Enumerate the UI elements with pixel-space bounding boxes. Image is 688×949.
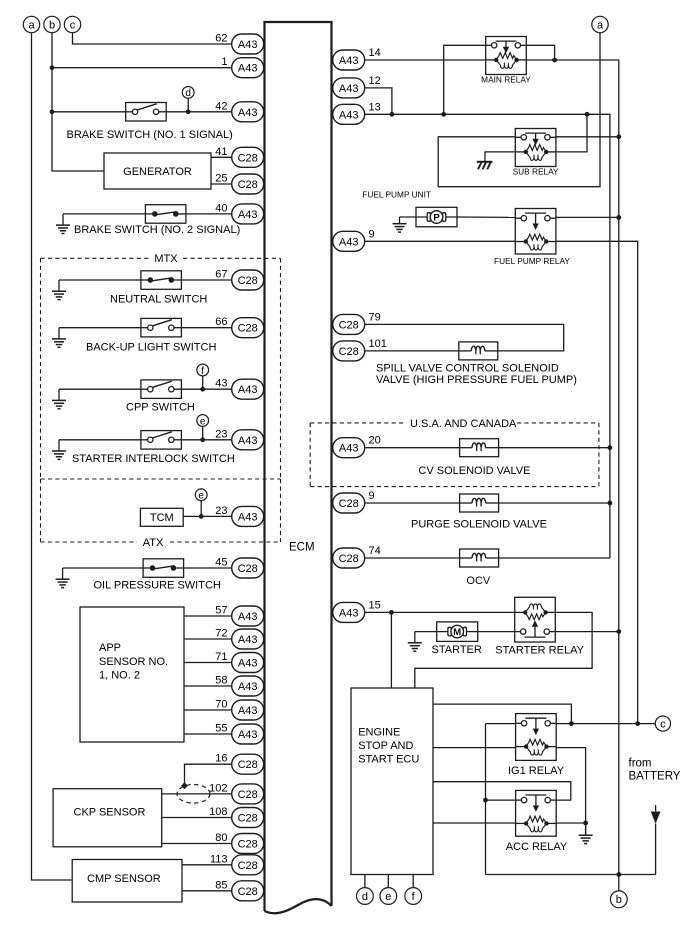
chassis ground sub relay <box>477 162 493 170</box>
USA/Canada box top dashed right part <box>517 422 599 424</box>
node f (bottom) <box>405 888 422 905</box>
connector C28 pin 25 <box>215 173 263 195</box>
node c (right) <box>655 716 670 731</box>
svg-text:C28: C28 <box>238 563 258 575</box>
svg-text:A43: A43 <box>238 611 258 623</box>
junction fuel pump coil rail on node c wire <box>635 721 640 726</box>
svg-text:67: 67 <box>215 269 227 281</box>
CKP sensor box <box>53 789 162 847</box>
switch STARTER INTERLOCK SWITCH <box>141 431 182 450</box>
connector C28 pin 102 <box>209 782 264 804</box>
svg-text:66: 66 <box>215 316 227 328</box>
switch BACK-UP LIGHT SWITCH <box>141 318 182 337</box>
svg-text:from: from <box>629 757 652 769</box>
connector A43 pin 23 (TCM) <box>215 505 263 527</box>
svg-text:72: 72 <box>215 628 227 640</box>
svg-text:C28: C28 <box>339 498 359 510</box>
wire APP sensor to pin 70 <box>184 709 232 711</box>
svg-text:BACK-UP LIGHT SWITCH: BACK-UP LIGHT SWITCH <box>86 341 216 353</box>
wire main relay contact output <box>526 45 554 60</box>
svg-text:CPP SWITCH: CPP SWITCH <box>126 402 195 414</box>
junction battery feed to ACC <box>483 798 488 803</box>
svg-text:40: 40 <box>215 202 227 214</box>
relay FUEL PUMP RELAY (U3) <box>515 209 556 255</box>
connector A43 pin 43 <box>215 378 263 400</box>
wire b rail to brake switch 1 <box>52 111 126 113</box>
node c (top left) <box>64 16 80 32</box>
wire pin 20 to CV solenoid <box>365 447 459 449</box>
svg-text:STARTER RELAY: STARTER RELAY <box>495 645 584 657</box>
svg-text:APP: APP <box>99 642 121 654</box>
APP sensor box <box>80 607 184 742</box>
wire CMP sensor to pin 85 <box>182 890 232 892</box>
wire ground to fuel pump <box>400 216 417 218</box>
svg-text:FUEL PUMP UNIT: FUEL PUMP UNIT <box>362 190 431 200</box>
svg-text:CV SOLENOID VALVE: CV SOLENOID VALVE <box>418 465 530 477</box>
ground back-up light switch <box>52 328 66 348</box>
svg-text:CMP SENSOR: CMP SENSOR <box>87 873 161 885</box>
wire battery feed to ACC relay contact <box>486 799 516 801</box>
connector A43 pin 70 <box>215 699 263 721</box>
wire starter relay coil loop to engine stop ECU <box>415 612 592 688</box>
wire pin 9 to purge solenoid <box>365 502 459 504</box>
svg-text:TCM: TCM <box>150 512 174 524</box>
wire 13 rail up to main relay contact <box>444 45 486 114</box>
ATX box bottom dashed left part <box>41 541 138 543</box>
from BATTERY arrow <box>651 805 661 875</box>
ground fuel pump <box>393 217 407 232</box>
junction node d <box>186 109 191 114</box>
wire neutral switch to pin 67 <box>181 279 231 281</box>
svg-text:C28: C28 <box>238 275 258 287</box>
node e (starter interlock) <box>197 415 209 428</box>
connector A43 pin 72 <box>215 628 263 650</box>
connector A43 pin 40 <box>215 202 263 224</box>
wire brake switch 2 to pin 40 <box>186 213 232 215</box>
wire CPP switch to pin 43 <box>181 388 231 390</box>
svg-text:e: e <box>200 416 206 427</box>
wire ECU to node d <box>364 875 366 888</box>
svg-text:A43: A43 <box>238 658 258 670</box>
wire pin 13 power rail <box>365 114 610 558</box>
svg-text:a: a <box>597 19 604 31</box>
connector C28 pin 67 <box>215 269 263 291</box>
svg-text:62: 62 <box>215 33 227 45</box>
wire brake switch 1 to pin 42 <box>166 111 232 113</box>
svg-text:BRAKE SWITCH (NO. 2 SIGNAL): BRAKE SWITCH (NO. 2 SIGNAL) <box>74 224 240 236</box>
svg-text:P: P <box>433 212 440 223</box>
junction starter relay contact on rail <box>616 629 621 634</box>
svg-text:SUB RELAY: SUB RELAY <box>513 166 559 176</box>
wire IG1 relay contact to node c <box>556 723 655 725</box>
junction pin 12/13 <box>390 112 395 117</box>
connector A43 pin 58 <box>215 675 263 697</box>
wire ECU output 3 to ACC relay contact <box>433 782 571 800</box>
svg-text:A43: A43 <box>238 634 258 646</box>
connector C28 pin 80 <box>215 832 263 854</box>
svg-text:41: 41 <box>215 146 227 158</box>
wire battery feed to IG1 relay contact <box>486 723 516 725</box>
wire CMP sensor to pin 113 <box>182 864 232 866</box>
svg-text:A43: A43 <box>238 435 258 447</box>
svg-text:f: f <box>201 366 204 377</box>
ground oil pressure switch <box>56 568 70 588</box>
connector A43 pin 62 <box>215 33 263 55</box>
svg-text:d: d <box>362 891 368 903</box>
connector A43 pin 1 <box>221 56 263 78</box>
svg-text:13: 13 <box>369 101 381 113</box>
svg-text:C28: C28 <box>339 346 359 358</box>
node d <box>182 87 194 100</box>
solenoid PURGE SOLENOID VALVE <box>460 494 499 512</box>
svg-text:MAIN RELAY: MAIN RELAY <box>481 74 531 84</box>
junction sub relay contact on rail <box>616 134 621 139</box>
svg-text:A43: A43 <box>238 107 258 119</box>
ground neutral switch <box>52 280 66 300</box>
MTX box top dashed left part <box>41 257 150 259</box>
connector C28 pin 113 <box>210 853 264 875</box>
connector A43 pin 12 <box>333 75 381 98</box>
svg-text:23: 23 <box>215 428 227 440</box>
wire node a rail down to CMP sensor <box>32 33 73 880</box>
svg-text:1: 1 <box>221 56 227 68</box>
shield connection diamond <box>181 782 188 789</box>
connector C28 pin 66 <box>215 316 263 338</box>
svg-text:b: b <box>49 19 55 31</box>
svg-text:ACC RELAY: ACC RELAY <box>506 841 568 853</box>
wire ECU output 4 to ACC relay coil <box>433 822 516 824</box>
shield dashed ellipse around CKP signal wire <box>177 785 210 804</box>
wire battery feed vertical <box>485 724 487 875</box>
wire APP sensor to pin 57 <box>184 615 232 617</box>
wire ground to brake switch 2 <box>63 213 145 215</box>
wire OCV to 13 rail end <box>499 557 610 559</box>
svg-text:23: 23 <box>215 505 227 517</box>
wire fuel pump relay contact to rail <box>556 216 619 218</box>
MTX box left dashed edge <box>40 258 42 479</box>
junction node f <box>200 387 205 392</box>
wire ground to starter <box>415 631 437 633</box>
svg-text:START ECU: START ECU <box>358 753 419 765</box>
wire CKP sensor to pin 80 <box>162 843 232 845</box>
ground IG1/ACC relays <box>579 824 593 844</box>
junction on b rail <box>50 65 55 70</box>
svg-text:STARTER: STARTER <box>432 644 482 656</box>
node a (top left) <box>23 16 39 32</box>
starter motor (M) <box>437 622 478 642</box>
svg-text:M: M <box>453 627 461 638</box>
wire fuel pump relay coil rail down to node c wire <box>556 241 638 723</box>
svg-text:A43: A43 <box>238 705 258 717</box>
wire node c to ECM pin 62 <box>73 33 232 44</box>
ground starter interlock switch <box>52 440 66 460</box>
relay MAIN RELAY (U1) <box>486 37 527 75</box>
wire pin 16 to CKP shield <box>185 764 232 784</box>
switch BRAKE SWITCH (NO. 2 SIGNAL) <box>145 205 186 224</box>
wire node f stem <box>202 376 204 389</box>
svg-text:71: 71 <box>215 651 227 663</box>
svg-text:C28: C28 <box>339 319 359 331</box>
wire ECU to node e <box>387 875 389 888</box>
svg-text:C28: C28 <box>238 813 258 825</box>
svg-text:113: 113 <box>210 853 228 865</box>
svg-text:NEUTRAL SWITCH: NEUTRAL SWITCH <box>110 293 207 305</box>
svg-text:PURGE SOLENOID VALVE: PURGE SOLENOID VALVE <box>411 518 547 530</box>
wire APP sensor to pin 58 <box>184 685 232 687</box>
wire pin 74 to OCV <box>365 557 459 559</box>
wire node b rail down to generator <box>52 33 104 171</box>
svg-text:FUEL PUMP RELAY: FUEL PUMP RELAY <box>494 256 570 266</box>
junction on b rail <box>50 109 55 114</box>
svg-text:C28: C28 <box>238 860 258 872</box>
svg-text:OIL PRESSURE SWITCH: OIL PRESSURE SWITCH <box>94 580 221 592</box>
relay SUB RELAY (U2) <box>515 129 556 167</box>
ECM box torn bottom edge <box>265 899 332 913</box>
wire generator to pin 25 <box>211 183 232 185</box>
svg-text:A43: A43 <box>339 55 359 67</box>
svg-text:IG1 RELAY: IG1 RELAY <box>508 765 565 777</box>
switch NEUTRAL SWITCH <box>141 271 182 290</box>
connector A43 pin 42 <box>215 100 263 122</box>
junction sub relay coil on 13 wire <box>585 112 590 117</box>
wire pin 14 to main relay coil <box>365 59 486 61</box>
svg-text:58: 58 <box>215 675 227 687</box>
wire sub relay coil to chassis ground <box>485 152 515 162</box>
connector C28 pin 16 <box>215 753 263 775</box>
svg-text:MTX: MTX <box>154 253 178 265</box>
junction b rail on battery feed <box>616 872 621 877</box>
connector C28 pin 79 <box>333 311 381 334</box>
wire node d stem <box>187 98 189 112</box>
wire ECU to node f <box>412 875 414 888</box>
connector A43 pin 55 <box>215 723 263 745</box>
wire b rail to pin 1 <box>52 67 232 69</box>
wire APP sensor to pin 71 <box>184 662 232 664</box>
relay STARTER RELAY (U4) <box>515 597 556 642</box>
svg-text:101: 101 <box>369 338 387 350</box>
connector A43 pin 13 <box>333 101 381 124</box>
connector A43 pin 15 <box>333 599 381 622</box>
svg-text:79: 79 <box>369 311 381 323</box>
connector C28 pin 108 <box>209 806 264 828</box>
connector C28 pin 41 <box>215 146 263 168</box>
svg-text:C28: C28 <box>238 789 258 801</box>
svg-text:42: 42 <box>215 100 227 112</box>
connector C28 pin 45 <box>215 557 263 579</box>
wire TCM to pin 23 <box>183 515 232 517</box>
junction pin 15 branch <box>389 610 394 615</box>
wire to node b stem <box>618 875 620 892</box>
svg-text:SENSOR NO.: SENSOR NO. <box>99 656 168 668</box>
node b (top left) <box>44 16 60 32</box>
wire CV solenoid to 13 rail <box>499 447 610 449</box>
USA/Canada box right dashed edge <box>598 423 600 487</box>
ENGINE STOP AND START ECU box <box>351 688 433 875</box>
wire node e stem (TCM) <box>200 501 202 517</box>
wire battery feed bottom horizontal <box>486 874 656 876</box>
connector A43 pin 20 <box>333 435 381 458</box>
svg-text:C28: C28 <box>339 553 359 565</box>
node e (TCM) <box>195 489 207 502</box>
svg-text:e: e <box>385 891 391 903</box>
wire node a loop to sub relay contact <box>438 33 600 187</box>
svg-text:b: b <box>616 894 622 906</box>
relay ACC RELAY (U6) <box>516 790 557 836</box>
svg-text:70: 70 <box>215 699 227 711</box>
svg-text:ECM: ECM <box>289 541 315 553</box>
junction ECU output on node c wire <box>569 721 574 726</box>
generator box <box>104 153 211 189</box>
wire ground to neutral switch <box>59 279 141 281</box>
svg-text:A43: A43 <box>238 209 258 221</box>
MTX/ATX divider dashed line <box>41 478 281 480</box>
switch OIL PRESSURE SWITCH <box>143 559 184 578</box>
wire CKP sensor to pin 108 <box>162 817 232 819</box>
wire ground to oil pressure switch <box>63 567 144 569</box>
wire ACC relay coil to ground drop <box>556 822 585 824</box>
wire back-up light switch to pin 66 <box>181 327 231 329</box>
junction CV solenoid on 13 rail <box>608 445 613 450</box>
svg-text:102: 102 <box>209 782 227 794</box>
wire pin 15 to starter relay coil <box>365 611 515 613</box>
wire pin 9 to fuel pump relay coil <box>365 240 515 242</box>
svg-text:e: e <box>198 491 204 502</box>
svg-text:C28: C28 <box>238 759 258 771</box>
svg-text:A43: A43 <box>238 63 258 75</box>
svg-text:55: 55 <box>215 723 227 735</box>
junction 13 rail to main relay <box>441 112 446 117</box>
svg-text:SPILL VALVE CONTROL SOLENOID: SPILL VALVE CONTROL SOLENOID <box>376 363 559 375</box>
connector C28 pin 74 <box>333 545 381 568</box>
svg-text:A43: A43 <box>339 607 359 619</box>
svg-text:57: 57 <box>215 605 227 617</box>
svg-text:BATTERY: BATTERY <box>629 771 681 783</box>
junction ACC coil on IG1 ground drop <box>583 821 588 826</box>
svg-text:16: 16 <box>215 753 227 765</box>
svg-text:A43: A43 <box>339 109 359 121</box>
svg-text:85: 85 <box>215 879 227 891</box>
wire ground to starter interlock switch <box>59 439 141 441</box>
connector A43 pin 57 <box>215 605 263 627</box>
svg-text:GENERATOR: GENERATOR <box>123 166 192 178</box>
ECM main box <box>265 22 332 911</box>
svg-text:108: 108 <box>209 806 227 818</box>
svg-text:d: d <box>185 88 191 99</box>
ATX box left dashed edge <box>40 479 42 542</box>
node e (bottom) <box>380 888 397 905</box>
svg-text:STOP AND: STOP AND <box>358 740 413 752</box>
CMP sensor box <box>72 860 182 903</box>
solenoid CV SOLENOID VALVE <box>460 439 499 457</box>
svg-text:14: 14 <box>369 47 381 59</box>
wire ground to CPP switch <box>59 388 141 390</box>
ground CPP switch <box>52 389 66 409</box>
svg-text:C28: C28 <box>238 839 258 851</box>
solenoid OCV <box>460 549 499 567</box>
svg-text:OCV: OCV <box>466 575 491 587</box>
svg-text:VALVE (HIGH PRESSURE FUEL PUMP: VALVE (HIGH PRESSURE FUEL PUMP) <box>376 374 577 386</box>
USA/Canada box left dashed edge <box>309 423 311 487</box>
node d (bottom) <box>357 888 374 905</box>
svg-text:A43: A43 <box>339 83 359 95</box>
MTX box top dashed right part <box>183 257 281 259</box>
wire pin 15 down to engine stop ECU <box>390 612 392 688</box>
junction purge solenoid on 13 rail <box>608 501 613 506</box>
svg-text:CKP SENSOR: CKP SENSOR <box>74 807 146 819</box>
svg-text:43: 43 <box>215 378 227 390</box>
svg-text:a: a <box>28 19 35 31</box>
connector A43 pin 23 <box>215 428 263 450</box>
node b (bottom right) <box>610 891 627 908</box>
svg-text:c: c <box>660 718 666 730</box>
ground brake switch 2 <box>56 214 70 234</box>
svg-text:A43: A43 <box>238 729 258 741</box>
wire APP sensor to pin 55 <box>184 733 232 735</box>
wire ECU output 1 to IG1 contact wire <box>433 704 571 724</box>
junction main relay contact/coil output <box>552 58 557 63</box>
ATX box right dashed edge <box>280 479 282 542</box>
connector A43 pin 71 <box>215 651 263 673</box>
wire starter to starter relay contact <box>478 631 515 633</box>
svg-text:C28: C28 <box>238 152 258 164</box>
wire ground to back-up light switch <box>59 327 141 329</box>
svg-text:12: 12 <box>369 75 381 87</box>
wire pin 101 to spill valve solenoid <box>365 350 459 352</box>
svg-text:U.S.A. AND CANADA: U.S.A. AND CANADA <box>410 418 517 430</box>
wire sub relay coil to 13 rail <box>556 114 587 152</box>
node f <box>197 364 209 377</box>
svg-text:A43: A43 <box>238 511 258 523</box>
svg-text:c: c <box>70 19 76 31</box>
svg-text:C28: C28 <box>238 323 258 335</box>
svg-text:80: 80 <box>215 832 227 844</box>
wire purge solenoid to 13 rail <box>499 502 610 504</box>
switch CPP SWITCH <box>141 380 182 399</box>
junction node e (TCM) <box>199 514 204 519</box>
ATX box bottom dashed right part <box>170 541 281 543</box>
junction node e <box>200 437 205 442</box>
svg-text:1, NO. 2: 1, NO. 2 <box>99 670 140 682</box>
USA/Canada box bottom dashed edge <box>310 486 599 488</box>
wire generator to pin 41 <box>211 156 232 158</box>
svg-text:ENGINE: ENGINE <box>358 726 400 738</box>
USA/Canada box top dashed left part <box>310 422 404 424</box>
svg-text:15: 15 <box>369 599 381 611</box>
wire sub relay contact to main rail <box>556 136 619 138</box>
connector C28 pin 85 <box>215 879 263 901</box>
wire CKP sensor to pin 102 <box>162 793 232 795</box>
wire starter relay contact to rail <box>555 631 619 633</box>
relay IG1 RELAY (U5) <box>516 714 557 761</box>
svg-text:C28: C28 <box>238 179 258 191</box>
junction fuel pump relay contact on rail <box>616 215 621 220</box>
svg-text:A43: A43 <box>238 681 258 693</box>
svg-text:ATX: ATX <box>143 537 164 549</box>
wire pin 12 joining pin 13 <box>365 88 392 114</box>
wire IG1 relay coil to ground <box>556 748 585 836</box>
svg-text:A43: A43 <box>238 384 258 396</box>
solenoid SPILL VALVE CONTROL SOLENOID VALVE <box>459 342 498 360</box>
wire ECU output 2 to IG1 relay coil <box>433 747 516 749</box>
svg-text:C28: C28 <box>238 886 258 898</box>
wire starter interlock switch to pin 23 <box>181 439 231 441</box>
wire node e stem <box>202 426 204 439</box>
svg-text:BRAKE SWITCH (NO. 1 SIGNAL): BRAKE SWITCH (NO. 1 SIGNAL) <box>67 129 233 141</box>
switch BRAKE SWITCH (NO. 1 SIGNAL) <box>126 103 167 122</box>
wire main relay output rail down right side <box>526 60 619 875</box>
wire oil pressure switch to pin 45 <box>184 567 232 569</box>
ground starter <box>408 632 422 652</box>
